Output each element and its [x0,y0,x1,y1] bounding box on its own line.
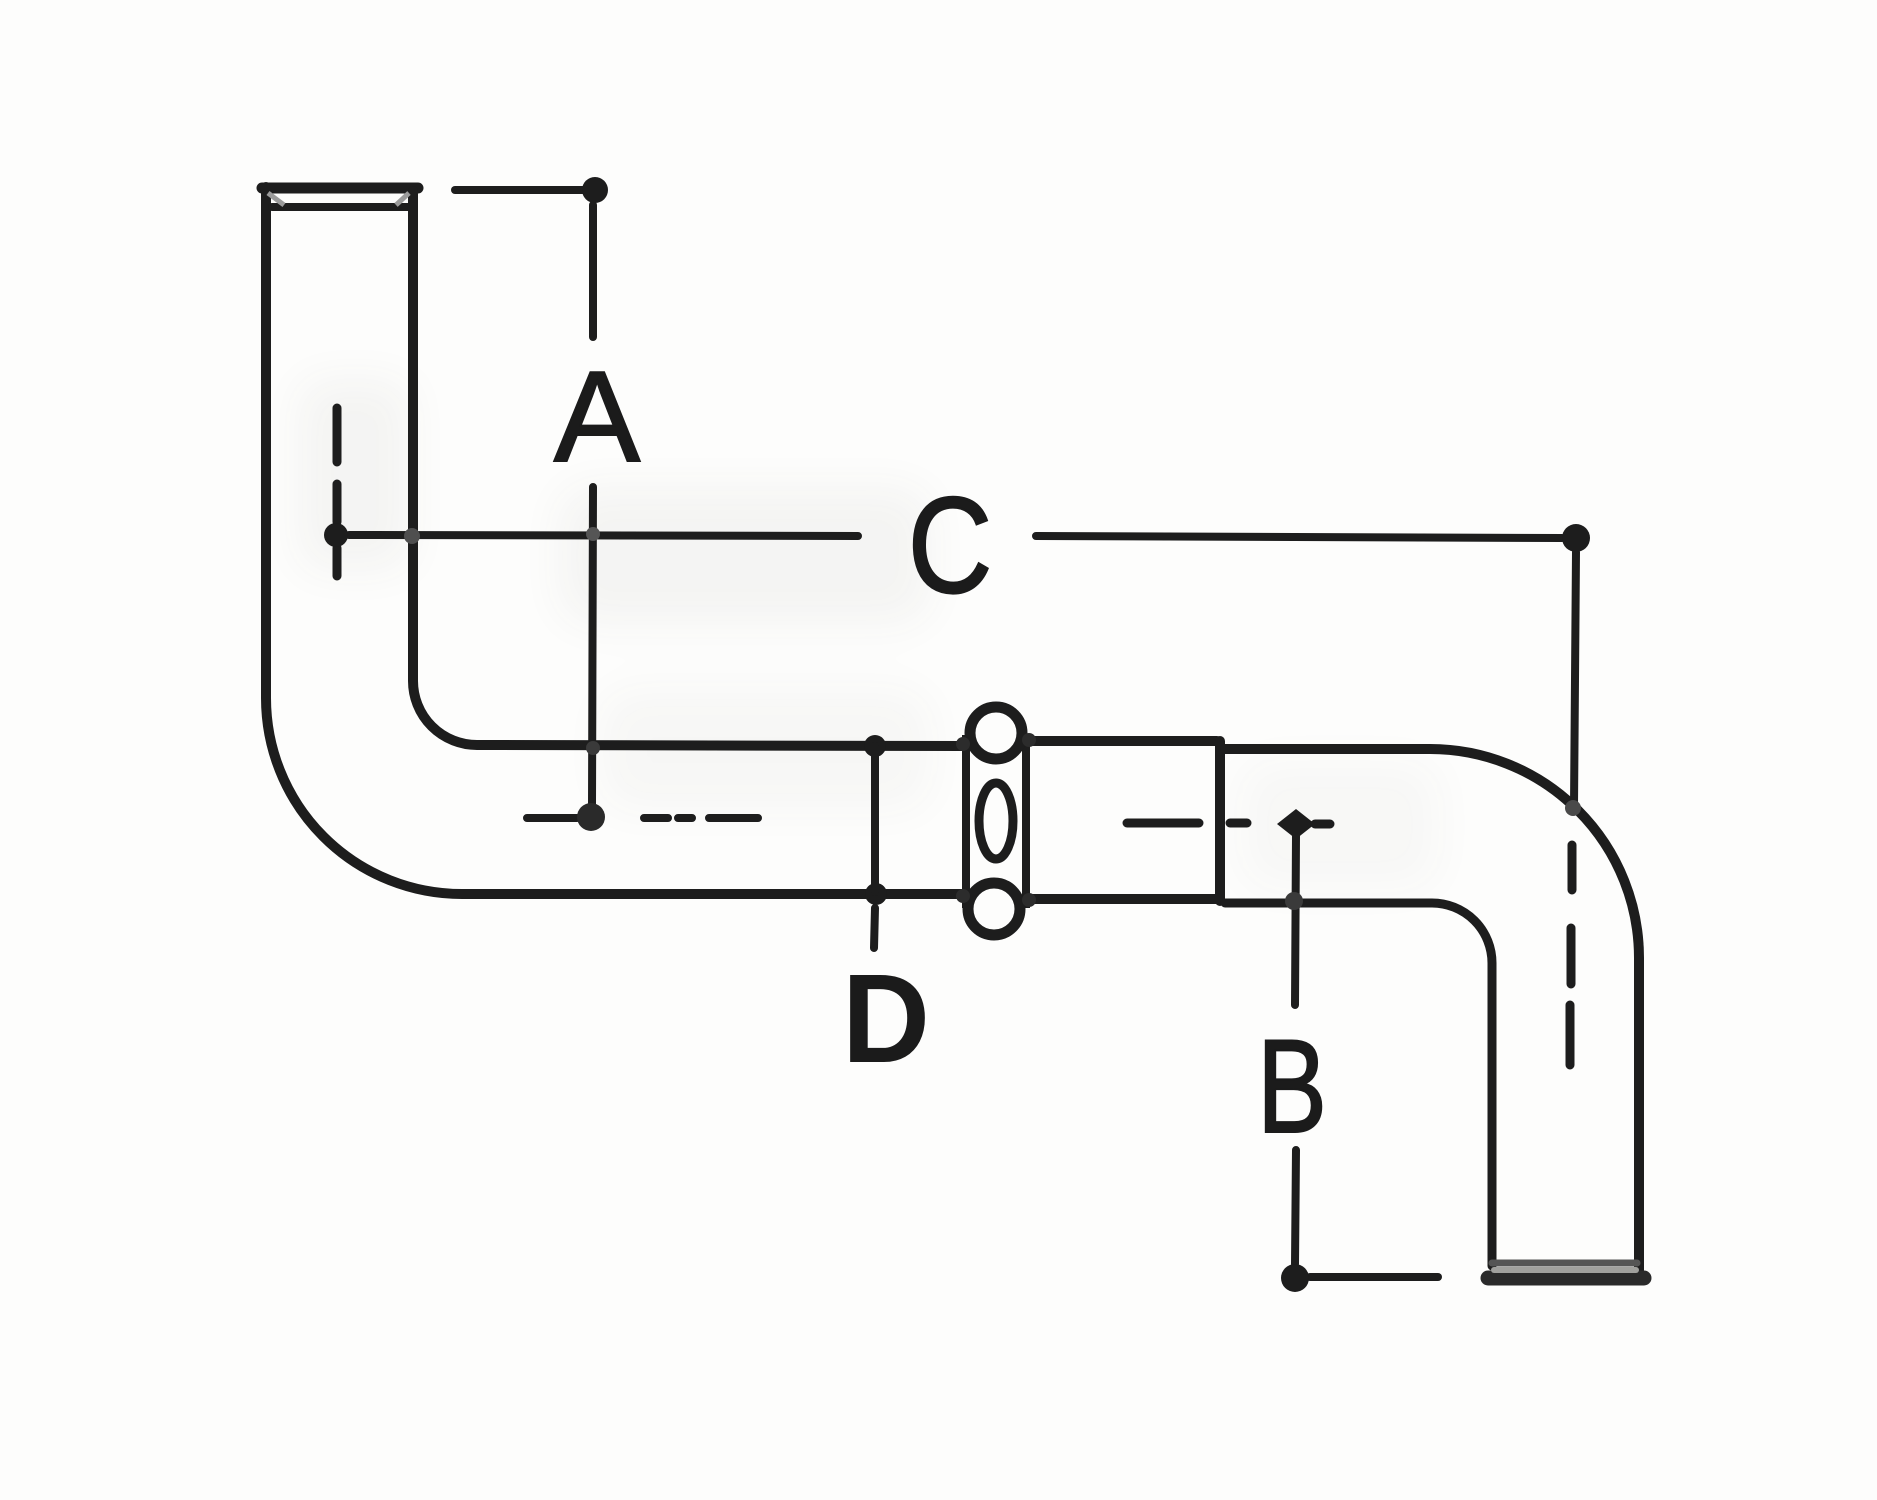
clamp: bottom ring [968,883,1020,935]
dimension C: horizontal line right segment [1036,536,1562,538]
pipe: horizontal bottom line right of clamp [1029,894,1217,904]
pipe: top cap corner smudge left [268,193,284,205]
pipe: top cap corner smudge right [396,193,409,205]
dimension B: bottom dot [1281,1264,1309,1292]
dimension C: horizontal line left segment [349,535,858,536]
dimension A: junction blob on pipe line [586,741,600,755]
pipe: left tube top end cap inner line [272,203,410,211]
dimension A: vertical line upper segment [589,205,597,337]
dimension A: bottom dot on pipe centerline [577,803,605,831]
pipe: right tube bottom end cap inner line [1492,1260,1637,1267]
dimension C: right dot [1562,524,1590,552]
dimension D: vertical line across pipe and below [874,746,875,948]
dimension D: top dot on pipe top line [864,735,886,757]
pipe: horizontal top line right of clamp [1029,736,1217,746]
clamp: side band lines [966,735,1026,908]
dimension B: vertical line upper segment [1295,836,1296,1005]
clamp: junction smudge top-left [956,737,970,751]
pipe: right tube bottom end cap outer line [1488,1271,1644,1286]
pipe: bottom end cap grey band [1494,1267,1636,1273]
dimension B: centerline dashes left of arrow [1127,823,1330,824]
svg-text:D: D [842,948,930,1089]
svg-text:B: B [1257,1013,1327,1161]
clamp: junction smudge bottom-left [956,889,970,903]
clamp: junction smudge bottom-right [1022,893,1036,907]
dimension C: junction blob at pipe wall [404,528,420,544]
dimension C: small crossing blob with A line [586,527,600,541]
dimension A: centerline dash-dot at pipe axis [527,814,758,822]
svg-text:C: C [908,469,992,621]
dimension C: right vertical extension line [1574,552,1576,806]
pipe: left tube top end cap outer line [262,183,418,194]
dimension B: junction blob on pipe bottom line [1285,892,1303,910]
pipe: right tube top line, outer bend and outer vertical wall [1225,749,1639,1270]
clamp: junction smudge top-right [1022,733,1036,747]
clamp: white body capsule fill [965,702,1027,940]
pipe: right tube bottom line, inner bend and inner vertical wall [1225,903,1492,1266]
dimension A: vertical line lower segment [592,487,593,805]
dimension C: right dashed centerline inside pipe [1570,845,1572,1065]
dimension B: bottom extension line [1310,1273,1438,1281]
dimension B: arrow diamond at centerline [1277,809,1315,839]
dimension A: top extension line [455,186,583,194]
dimension B: vertical line lower segment [1295,1150,1296,1264]
clamp: middle oval slot [979,783,1013,859]
dimension D: bottom dot on pipe bottom line [865,883,887,905]
pipe: left tube inner wall and inner bend to horizontal top line [413,191,963,746]
dimension A: top dot [582,177,608,203]
clamp: top ring [970,707,1022,759]
pipe: slip joint step vertical [1215,741,1225,901]
svg-text:A: A [554,345,640,489]
dimension C: junction blob at bend [1565,800,1581,816]
dimension C: left dashed centerline [333,408,342,576]
dimension C: left dot [324,523,348,547]
pipe: left vertical tube outer wall and lower bend [266,187,963,894]
